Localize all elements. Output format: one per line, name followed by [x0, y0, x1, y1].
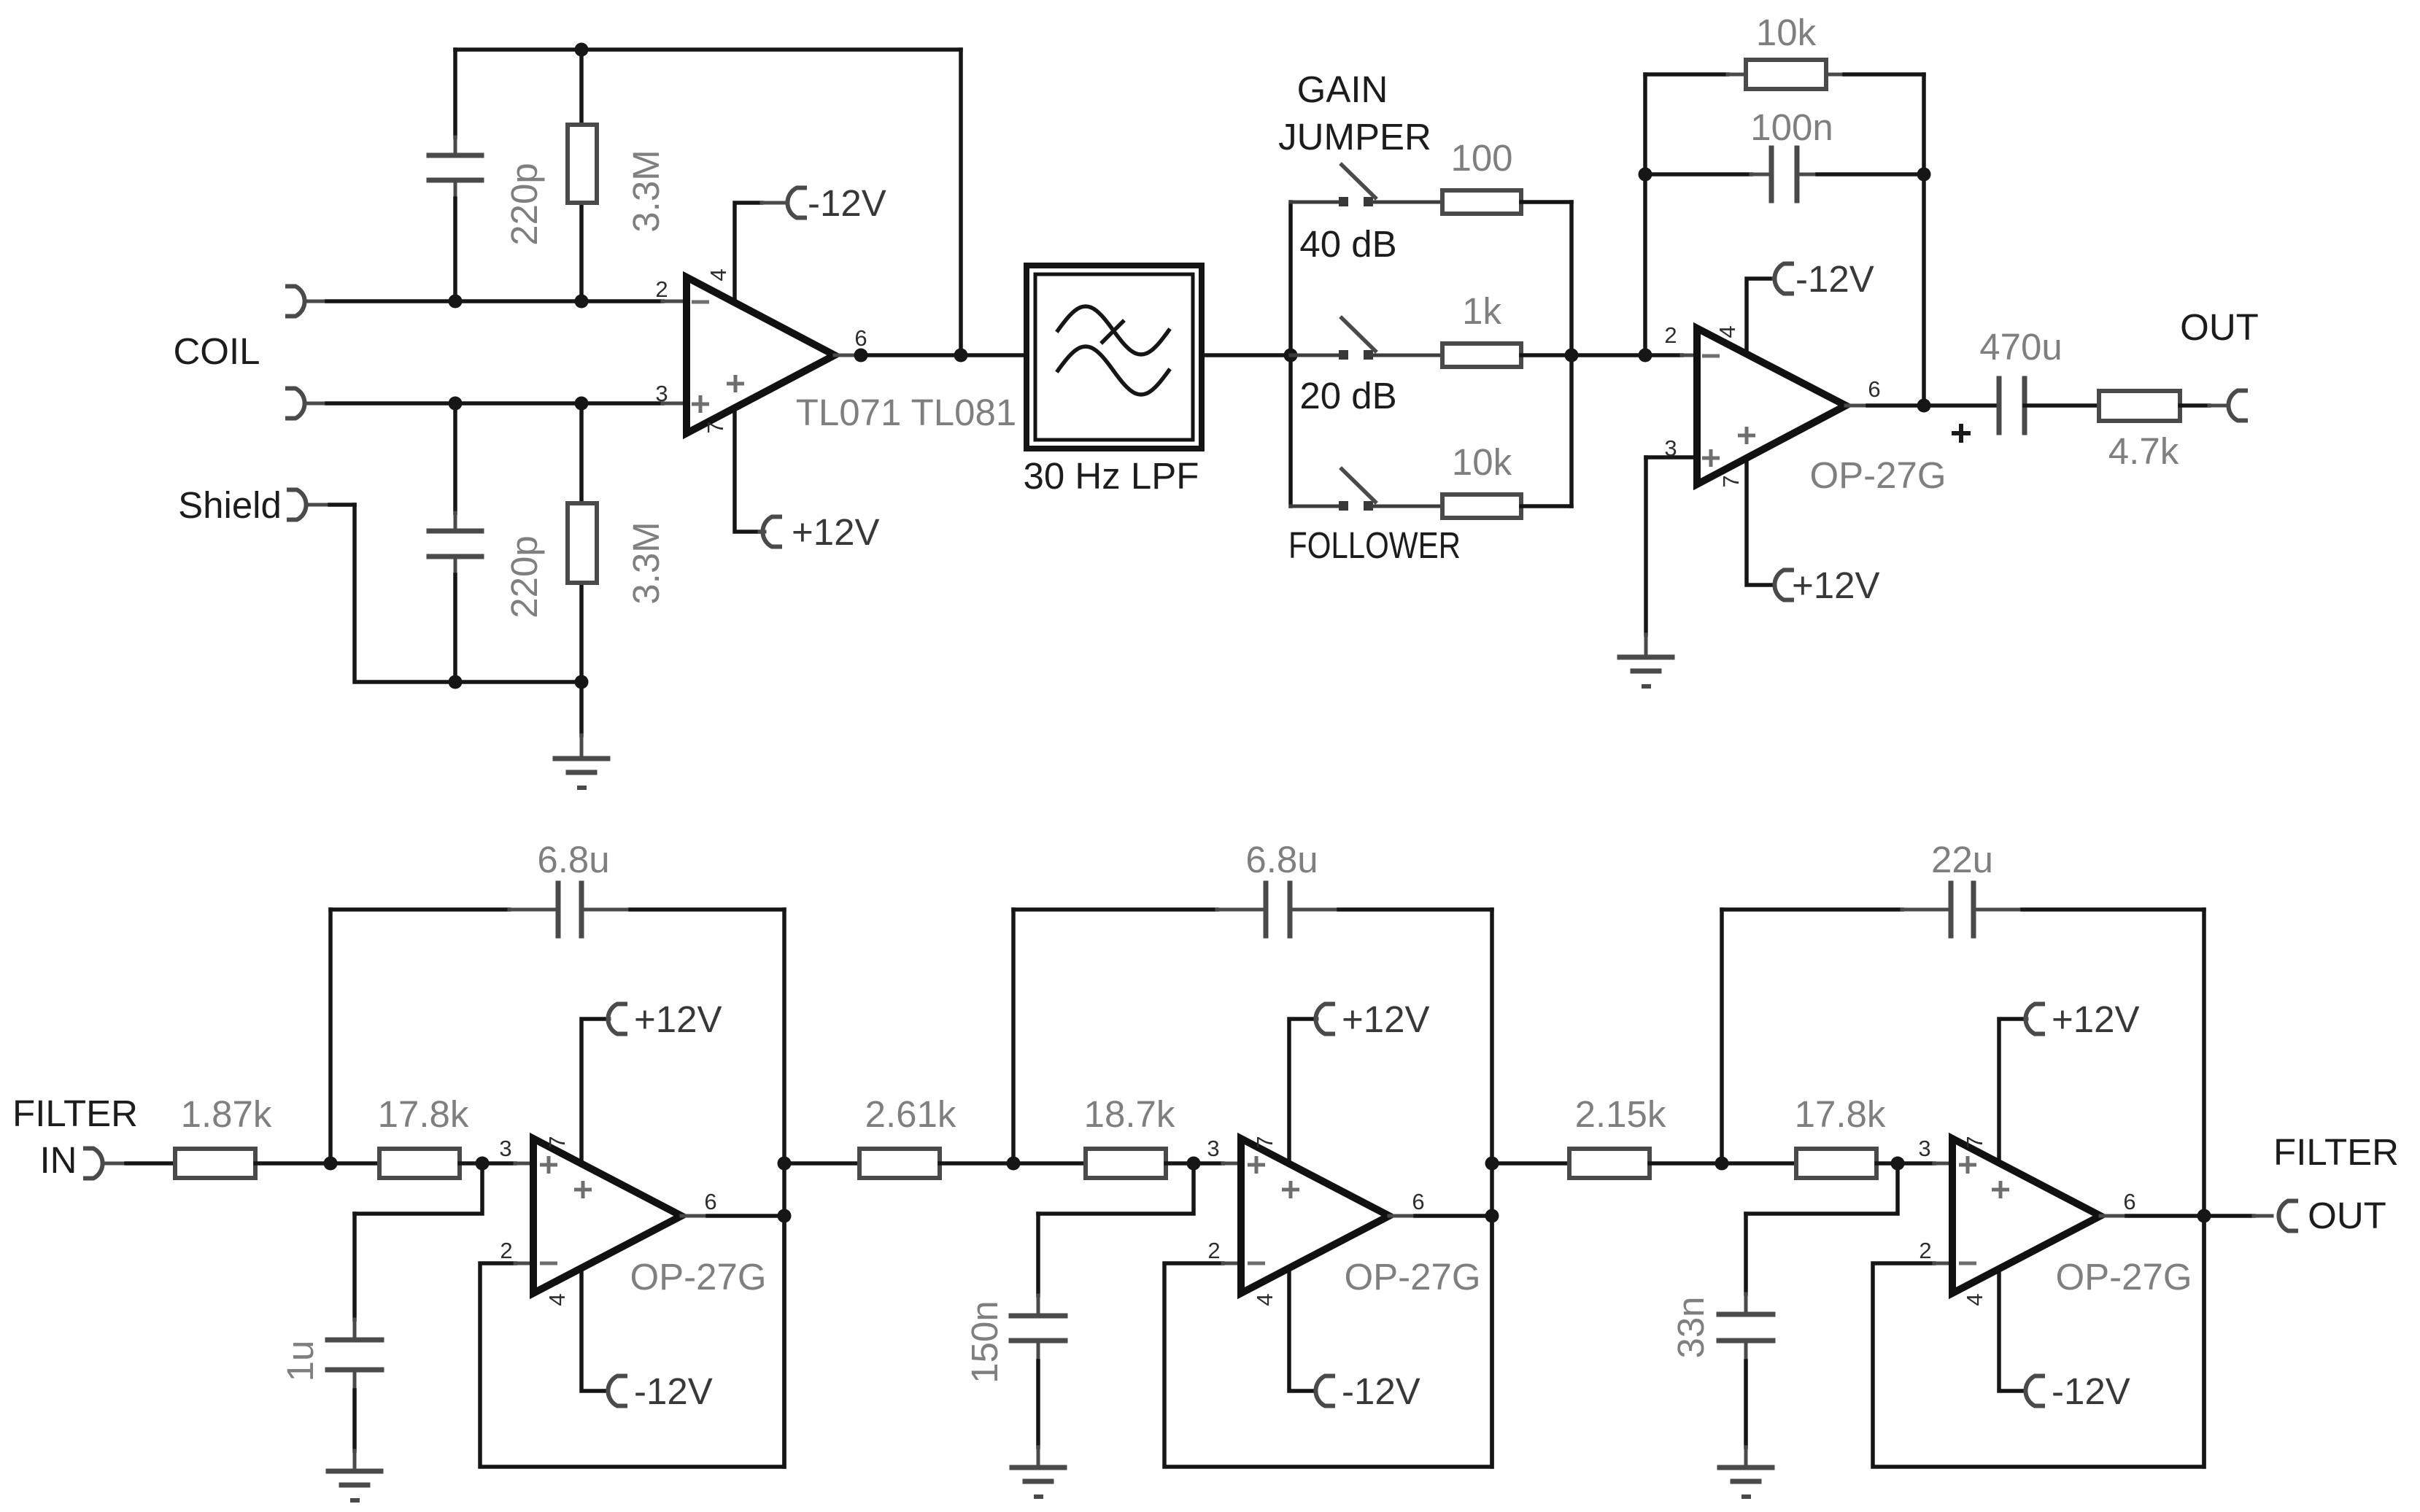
junction top rail / 3.3M branch — [575, 43, 589, 57]
resistor R4 4.7k — [2099, 391, 2180, 421]
svg-text:470u: 470u — [1979, 326, 2062, 368]
svg-text:6: 6 — [1868, 376, 1880, 402]
wire stage1 feedback rail left — [330, 907, 509, 912]
connector OUT — [2228, 391, 2246, 421]
wire gain jumper right bus — [1569, 202, 1574, 506]
svg-text:GAIN: GAIN — [1297, 69, 1388, 110]
svg-text:IN: IN — [40, 1139, 77, 1181]
wire stage3 output to FILTER OUT — [2204, 1214, 2254, 1218]
U2 +12V connector — [1774, 570, 1792, 600]
junction stage3 output/pin6 — [2197, 1209, 2211, 1223]
wire stage1 feedback rail right — [581, 908, 630, 912]
svg-text:FILTER: FILTER — [2273, 1131, 2399, 1173]
switch (1k branch) — [1339, 350, 1348, 360]
svg-text:220p: 220p — [503, 163, 545, 245]
wire stage2 feedback loop left vertical — [1011, 910, 1016, 1163]
svg-text:7: 7 — [1252, 1136, 1277, 1148]
op-amp U2 minus mark — [1702, 354, 1720, 358]
switch (100 branch) — [1339, 197, 1348, 206]
wire stage3 feedback rail left — [1722, 907, 1902, 912]
U2 -12V connector — [1774, 264, 1792, 294]
wire stage1 feedback loop left vertical — [328, 910, 333, 1163]
svg-text:100: 100 — [1450, 137, 1512, 179]
capacitor C1 220p (upper) leads — [453, 50, 457, 137]
switch (10k branch) — [1339, 501, 1348, 511]
svg-text:4.7k: 4.7k — [2108, 430, 2179, 472]
junction stage2 feedback node — [1007, 1157, 1021, 1171]
svg-text:7: 7 — [1718, 475, 1744, 487]
stage1 power pin 4 wire to -12V — [581, 1262, 608, 1391]
U2 power pin 7 wire to +12V — [1747, 452, 1771, 585]
junction output/feedback — [954, 349, 968, 363]
svg-text:4: 4 — [1715, 325, 1740, 338]
svg-text:Shield: Shield — [178, 484, 282, 526]
op-amp U4 OP-27G triangle — [1241, 1139, 1389, 1293]
svg-text:3.3M: 3.3M — [625, 150, 667, 232]
junction pin3/220p — [449, 397, 463, 411]
svg-text:FILTER: FILTER — [12, 1093, 138, 1134]
op-amp U4 minus mark (pin2) — [1248, 1262, 1265, 1265]
stage3 -12V connector — [2025, 1376, 2043, 1406]
wire gain bus to U2 pin 2 — [1572, 353, 1682, 357]
wire stage3 feedback loop left vertical — [1720, 910, 1724, 1163]
svg-text:+12V: +12V — [634, 999, 722, 1040]
wire 10k rail right — [1826, 73, 1844, 77]
ground (150n) — [1012, 1465, 1064, 1470]
wire 2.15k to node — [1650, 1161, 1722, 1166]
resistor R1 3.3M (upper) — [568, 125, 597, 203]
svg-text:4: 4 — [705, 268, 731, 281]
wire feedback right vertical — [1922, 74, 1926, 406]
wire 150n to ground — [1037, 1341, 1040, 1361]
svg-text:6.8u: 6.8u — [1245, 839, 1318, 880]
capacitor C2 220p (lower) leads — [453, 403, 457, 513]
stage3 power pin 4 wire to -12V — [1999, 1262, 2025, 1391]
U1 power pin 4 wire to -12V — [735, 203, 762, 314]
svg-text:33n: 33n — [1670, 1296, 1712, 1358]
capacitor 6.8u (feedback stage1) — [556, 883, 561, 936]
wire U1 output to LPF — [835, 354, 861, 357]
svg-text:TL071 TL081: TL071 TL081 — [796, 392, 1016, 433]
svg-text:150n: 150n — [964, 1300, 1005, 1383]
wire U3 output — [681, 1214, 708, 1218]
svg-text:40 dB: 40 dB — [1299, 223, 1396, 265]
junction 100n left — [1639, 168, 1652, 182]
polarity + mark (470u) — [1952, 431, 1971, 435]
op-amp U4 inner plus mark — [1282, 1188, 1299, 1192]
wire 40/20/follower branch left y=487 — [1291, 354, 1340, 357]
wire stage2 feedback rail left — [1013, 907, 1217, 912]
stage1 -12V connector — [608, 1376, 625, 1406]
wire resistor 1k to right bus — [1521, 353, 1572, 357]
junction stage1 feedback node — [324, 1157, 338, 1171]
wire stage1 output vertical — [782, 910, 786, 1467]
wire stage2 output vertical — [1490, 910, 1494, 1467]
connector FILTER OUT — [2278, 1201, 2296, 1231]
svg-text:JUMPER: JUMPER — [1278, 116, 1431, 158]
svg-text:6: 6 — [2123, 1189, 2135, 1214]
svg-text:-12V: -12V — [2052, 1371, 2130, 1412]
junction U1 output — [854, 349, 868, 363]
svg-text:7: 7 — [703, 421, 728, 433]
op-amp U1 plus mark (pin3) — [692, 403, 709, 406]
wire node to 18.7k — [1013, 1161, 1086, 1166]
junction pin2/220p — [449, 295, 463, 309]
op-amp U2 inner plus mark — [1738, 434, 1755, 438]
junction stage1 output/pin6 — [778, 1209, 792, 1223]
wire bottom node to ground — [579, 682, 584, 735]
stage1 +12V connector — [608, 1004, 625, 1034]
svg-text:+12V: +12V — [2052, 999, 2140, 1040]
wire stage3 input to 2.15k — [1492, 1161, 1569, 1166]
capacitor 1u (shunt) — [328, 1338, 382, 1343]
svg-text:10k: 10k — [1452, 441, 1512, 483]
stage2 power pin 7 wire to +12V — [1289, 1019, 1315, 1174]
wire LPF to gain jumper bus — [1205, 353, 1291, 357]
svg-text:7: 7 — [1962, 1136, 1987, 1148]
op-amp U2 plus mark — [1702, 457, 1720, 460]
svg-text:4: 4 — [1962, 1293, 1987, 1306]
resistor R3 10k (feedback) — [1746, 60, 1826, 89]
resistor 17.8k — [1796, 1149, 1876, 1178]
junction U2 output — [1917, 399, 1931, 413]
svg-text:4: 4 — [1252, 1293, 1277, 1306]
op-amp U3 OP-27G triangle — [533, 1139, 681, 1293]
stage3 +12V connector — [2025, 1004, 2043, 1034]
svg-text:3: 3 — [1664, 435, 1677, 461]
wire stage2 pin 2 feedback loop — [1164, 1216, 1492, 1467]
wire pin3 node jog to 33n — [1746, 1163, 1898, 1214]
wire pin3 node to op-amp — [482, 1161, 515, 1166]
svg-text:220p: 220p — [503, 535, 545, 618]
junction gain bus left — [1284, 349, 1298, 363]
junction pin3/3.3M — [575, 397, 589, 411]
wire 100n rail right — [1797, 173, 1817, 177]
connector FILTER IN — [85, 1149, 103, 1179]
svg-text:7: 7 — [544, 1136, 570, 1148]
svg-text:6: 6 — [1412, 1189, 1424, 1214]
capacitor C2 220p (lower) — [429, 529, 482, 534]
resistor 18.7k — [1086, 1149, 1166, 1178]
LPF icon cross mark — [1102, 322, 1123, 342]
svg-text:2.15k: 2.15k — [1575, 1093, 1666, 1135]
resistor 1k (gain jumper) — [1442, 344, 1521, 367]
U1 power pin 7 wire to +12V — [735, 400, 759, 532]
wire switch to resistor 100 — [1372, 201, 1442, 204]
U2 power pin 4 wire to -12V — [1747, 279, 1774, 365]
wire pin3 node jog to 150n — [1038, 1163, 1194, 1214]
op-amp U1 TL071 triangle — [687, 277, 835, 433]
svg-text:1u: 1u — [279, 1341, 321, 1382]
wire pin3 node to op-amp — [1898, 1161, 1934, 1166]
svg-text:OP-27G: OP-27G — [1344, 1256, 1480, 1298]
wire 33n to ground — [1744, 1341, 1748, 1361]
junction 100n right — [1917, 168, 1931, 182]
30 Hz LPF box inner — [1035, 274, 1193, 440]
connector COIL+ (to pin 2) — [287, 287, 305, 317]
junction bottom/3.3M — [575, 675, 589, 689]
svg-text:2: 2 — [1664, 322, 1677, 348]
junction stage2 output/main — [1485, 1157, 1499, 1171]
U1 +12V connector — [762, 517, 780, 547]
svg-text:30 Hz LPF: 30 Hz LPF — [1024, 455, 1199, 497]
wire 10k rail left — [1645, 72, 1728, 77]
svg-text:+12V: +12V — [1342, 999, 1430, 1040]
wire pin3 node jog to 1u — [355, 1163, 482, 1214]
wire stage3 feedback rail right — [1974, 908, 2022, 912]
svg-text:4: 4 — [544, 1293, 570, 1306]
svg-text:17.8k: 17.8k — [378, 1093, 469, 1135]
svg-text:OUT: OUT — [2180, 306, 2259, 348]
svg-text:2.61k: 2.61k — [865, 1093, 956, 1135]
junction stage1 output/main — [778, 1157, 792, 1171]
resistor 17.8k — [379, 1149, 460, 1178]
svg-text:1k: 1k — [1462, 290, 1501, 332]
wire COIL+ to op-amp U1 pin 2 — [305, 300, 327, 303]
svg-text:3.3M: 3.3M — [625, 522, 667, 604]
resistor R1 3.3M (upper) leads — [579, 50, 584, 125]
wire gain jumper left bus — [1288, 202, 1293, 506]
wire 470u to 4.7k — [2025, 403, 2099, 408]
svg-text:2: 2 — [1207, 1238, 1220, 1263]
wire pin3 node to op-amp — [1194, 1161, 1223, 1166]
stage2 -12V connector — [1315, 1376, 1333, 1406]
svg-text:1.87k: 1.87k — [181, 1093, 272, 1135]
wire 40/20/follower branch left y=694 — [1291, 505, 1340, 508]
wire resistor 10k to right bus — [1521, 504, 1572, 508]
svg-text:2: 2 — [500, 1238, 512, 1263]
op-amp U3 inner plus mark — [574, 1188, 592, 1192]
wire stage3 pin 2 feedback loop — [1873, 1216, 2204, 1467]
wire U2 output — [1846, 404, 1868, 408]
svg-text:2: 2 — [1919, 1238, 1931, 1263]
resistor 10k (gain jumper) — [1442, 495, 1521, 518]
ground (1u) — [328, 1469, 381, 1474]
ground (input network) — [555, 756, 608, 761]
op-amp U2 OP-27G triangle — [1697, 328, 1846, 484]
op-amp U4 plus mark (pin3) — [1248, 1163, 1265, 1167]
wire 1.87k to node — [255, 1161, 330, 1166]
wire switch to resistor 10k — [1372, 505, 1442, 508]
svg-text:-12V: -12V — [634, 1371, 713, 1412]
svg-text:22u: 22u — [1931, 839, 1993, 880]
svg-text:OP-27G: OP-27G — [1809, 454, 1946, 496]
wire 4.7k to OUT — [2180, 403, 2209, 408]
resistor 2.61k — [859, 1149, 940, 1178]
ground (U2 pin 3) — [1620, 655, 1672, 660]
capacitor 150n (shunt) — [1011, 1314, 1065, 1319]
wire FILTER IN to 1.87k — [104, 1162, 126, 1166]
svg-text:6: 6 — [854, 325, 867, 351]
junction stage2 output/pin6 — [1485, 1209, 1499, 1223]
svg-text:20 dB: 20 dB — [1299, 375, 1396, 416]
svg-text:-12V: -12V — [808, 182, 886, 224]
svg-text:FOLLOWER: FOLLOWER — [1288, 524, 1461, 566]
svg-text:10k: 10k — [1756, 12, 1817, 53]
svg-text:2: 2 — [655, 276, 668, 302]
wire 17.8k to pin 3 node — [460, 1161, 482, 1166]
LPF icon sine wave 1 — [1058, 306, 1169, 354]
op-amp U5 plus mark (pin3) — [1959, 1163, 1976, 1167]
svg-text:100n: 100n — [1750, 106, 1833, 148]
op-amp U1 minus mark (pin2) — [692, 301, 709, 304]
wire U2 pin 3 to ground — [1646, 455, 1697, 460]
svg-text:OP-27G: OP-27G — [2055, 1256, 2192, 1298]
op-amp U3 plus mark (pin3) — [540, 1163, 557, 1167]
svg-text:3: 3 — [499, 1136, 511, 1161]
resistor R2 3.3M (lower) leads — [579, 403, 584, 503]
resistor R2 3.3M (lower) — [568, 503, 597, 583]
svg-text:OP-27G: OP-27G — [630, 1256, 766, 1298]
stage2 power pin 4 wire to -12V — [1289, 1262, 1315, 1391]
wire U5 output — [2100, 1214, 2127, 1218]
capacitor C4 470u — [1997, 379, 2002, 433]
stage3 power pin 7 wire to +12V — [1999, 1019, 2025, 1174]
wire node to 17.8k — [330, 1161, 379, 1166]
U1 -12V connector — [787, 188, 805, 218]
wire stage2 feedback rail right — [1290, 908, 1339, 912]
junction gain bus right — [1565, 349, 1579, 363]
svg-text:-12V: -12V — [1795, 258, 1874, 300]
wire Shield to bottom node — [309, 503, 330, 507]
svg-text:3: 3 — [1207, 1136, 1219, 1161]
wire U4 output — [1389, 1214, 1415, 1218]
svg-text:18.7k: 18.7k — [1084, 1093, 1175, 1135]
wire stage2 input to 2.61k — [784, 1161, 859, 1166]
ground (33n) — [1720, 1465, 1772, 1470]
stage1 power pin 7 wire to +12V — [581, 1019, 608, 1174]
wire top feedback rail — [455, 47, 961, 52]
svg-text:6.8u: 6.8u — [537, 839, 609, 880]
wire 100n rail left — [1645, 172, 1751, 177]
capacitor C1 220p (upper) — [429, 153, 482, 158]
svg-text:COIL: COIL — [173, 330, 260, 372]
capacitor 22u (feedback stage3) — [1949, 883, 1954, 936]
wire 1u to ground — [353, 1370, 357, 1390]
stage2 +12V connector — [1315, 1004, 1333, 1034]
wire feedback vertical to output — [959, 50, 963, 355]
svg-text:-12V: -12V — [1342, 1371, 1420, 1412]
junction stage3 feedback node — [1715, 1157, 1729, 1171]
resistor 2.15k — [1569, 1149, 1650, 1178]
junction feedback node (pin2) — [1639, 349, 1652, 363]
30 Hz LPF box outer — [1027, 265, 1202, 449]
resistor 1.87k — [175, 1149, 255, 1178]
wire 40/20/follower branch left y=277 — [1291, 201, 1340, 204]
wire stage1 pin 2 feedback loop — [480, 1216, 784, 1467]
junction bottom/220p — [449, 675, 463, 689]
svg-text:3: 3 — [1918, 1136, 1930, 1161]
LPF icon sine wave 2 — [1058, 346, 1169, 395]
op-amp U5 inner plus mark — [1992, 1188, 2009, 1192]
wire 18.7k to pin 3 node — [1166, 1161, 1194, 1166]
svg-text:17.8k: 17.8k — [1795, 1093, 1886, 1135]
capacitor 33n (shunt) — [1719, 1312, 1773, 1317]
capacitor 6.8u (feedback stage2) — [1264, 883, 1269, 936]
junction pin2/3.3M — [575, 295, 589, 309]
svg-text:OUT: OUT — [2308, 1195, 2386, 1236]
svg-text:3: 3 — [655, 381, 668, 406]
junction stage2 pin 3 node — [1187, 1157, 1201, 1171]
wire 2.61k to node — [940, 1161, 1013, 1166]
resistor 100 (gain jumper) — [1442, 190, 1521, 214]
junction stage1 pin 3 node — [476, 1157, 490, 1171]
wire 17.8k to pin 3 node — [1876, 1161, 1898, 1166]
connector COIL- (to pin 3) — [287, 389, 305, 419]
svg-text:+12V: +12V — [1792, 565, 1880, 606]
wire stage3 output vertical — [2202, 910, 2206, 1467]
wire COIL- to op-amp U1 pin 3 — [305, 402, 327, 406]
capacitor C3 100n (feedback) — [1769, 148, 1774, 201]
op-amp U5 minus mark (pin2) — [1959, 1262, 1976, 1265]
wire node to 17.8k — [1722, 1161, 1796, 1166]
op-amp U1 inner plus mark — [727, 382, 744, 386]
svg-text:+12V: +12V — [792, 511, 880, 553]
connector Shield — [289, 490, 306, 520]
wire feedback left vertical — [1643, 74, 1647, 355]
op-amp U5 OP-27G triangle — [1952, 1139, 2100, 1293]
wire switch to resistor 1k — [1372, 354, 1442, 357]
svg-text:6: 6 — [704, 1189, 716, 1214]
junction stage3 pin 3 node — [1891, 1157, 1905, 1171]
op-amp U3 minus mark (pin2) — [540, 1262, 557, 1265]
wire resistor 100 to right bus — [1521, 200, 1572, 204]
